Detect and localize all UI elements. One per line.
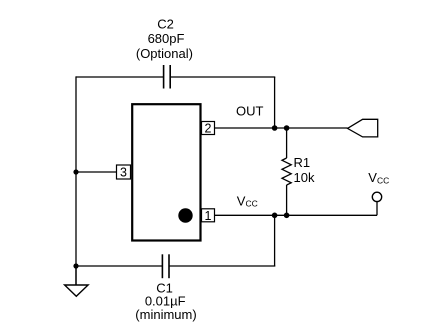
node pin3 junction [73, 169, 78, 174]
pin 3 [117, 165, 131, 180]
Vcc terminal circle [372, 192, 381, 201]
svg-text:R1: R1 [294, 155, 311, 170]
op-amp U1 body [132, 104, 200, 240]
wire left rail [75, 76, 77, 285]
node ground junction [73, 263, 78, 268]
node Vcc junction B (R1 bottom) [284, 213, 290, 219]
wire down to bottom rail [274, 215, 276, 266]
wire Vcc terminal stub [376, 202, 378, 216]
ground [65, 266, 89, 296]
wire pin 3 [76, 171, 117, 173]
svg-text:0.01µF: 0.01µF [145, 293, 186, 308]
svg-text:1: 1 [205, 209, 212, 223]
svg-text:680pF: 680pF [148, 31, 185, 46]
svg-text:3: 3 [120, 166, 127, 180]
pin 1 indicator dot [178, 208, 192, 222]
svg-text:10k: 10k [294, 170, 315, 185]
svg-text:OUT: OUT [236, 104, 264, 119]
pin 2 [202, 122, 215, 136]
svg-text:(Optional): (Optional) [136, 46, 193, 61]
svg-text:(minimum): (minimum) [135, 307, 196, 322]
output terminal symbol [348, 119, 378, 137]
resistor R1 [282, 128, 291, 215]
node OUT junction B (R1 top) [284, 125, 290, 131]
wire Vcc rail [215, 214, 378, 216]
wire OUT [215, 127, 348, 129]
pin 1 [202, 209, 215, 223]
capacitor C1 [162, 254, 169, 278]
wire top rail right segment [170, 76, 275, 78]
capacitor C2 [164, 65, 171, 89]
wire bottom rail right segment [169, 265, 275, 267]
wire from top rail down to OUT node [274, 77, 276, 128]
wire bottom rail left segment [76, 265, 162, 267]
wire top rail left segment [76, 76, 164, 78]
svg-text:2: 2 [205, 122, 212, 136]
node OUT junction A [272, 125, 278, 131]
svg-text:C2: C2 [157, 17, 174, 32]
node Vcc junction A [272, 213, 278, 219]
